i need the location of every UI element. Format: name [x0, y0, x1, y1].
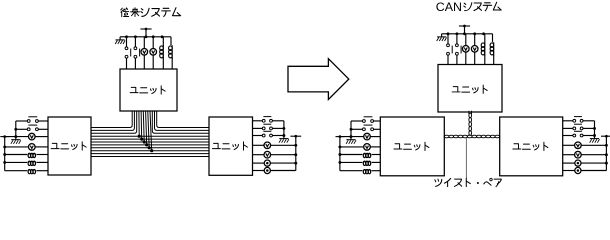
lamp/meter M3 (CAN right unit): [563, 160, 607, 166]
unit box (conventional left ECU): [48, 117, 91, 175]
wire: power feed (CAN left unit): [338, 137, 341, 171]
title: CANシステム (CAN system): [436, 0, 502, 14]
label ユニット (CAN right unit): [513, 142, 548, 150]
label ユニット (CAN left unit): [394, 142, 429, 150]
lamp/meter M2 (CAN top): [471, 34, 478, 65]
label: ツイスト・ペア (twisted pair): [435, 178, 502, 186]
ground (CAN right unit): [590, 136, 600, 143]
wire: power feed (conventional left unit): [3, 137, 6, 171]
big arrow (conventional to CAN): [288, 59, 349, 100]
wire harness: top-unit branch lines bending right (conventional): [152, 111, 209, 133]
switch SW3 (conventional right unit): [253, 131, 284, 137]
switch SW2 (CAN right unit): [563, 124, 595, 130]
ground (conventional right unit): [279, 136, 289, 143]
lamp/meter M1 (conventional left unit): [5, 133, 48, 140]
lamp/meter M2 (conventional left unit): [5, 144, 48, 151]
lamp/meter M2 (CAN left unit): [340, 144, 380, 151]
wire harness: top-unit branch lines bending left (conventional): [91, 111, 137, 133]
power supply symbol (conventional right unit): [290, 135, 301, 145]
svg-text:CAN: CAN: [436, 0, 462, 14]
lamp/meter M2 (conventional right unit): [253, 151, 296, 158]
lamp/meter M1 (CAN right unit): [563, 142, 607, 149]
coil (solenoid) L1 (CAN top): [481, 34, 485, 65]
switch SW1 (conventional top): [125, 37, 131, 69]
label ユニット (conventional left unit): [51, 142, 86, 150]
coil (solenoid) L1 (conventional left unit): [5, 153, 48, 157]
coil (solenoid) L3 (CAN left unit): [340, 169, 380, 173]
power supply symbol (CAN left unit): [336, 135, 345, 138]
unit box (conventional top ECU): [120, 69, 177, 111]
lamp/meter M4 (conventional right unit): [253, 167, 296, 173]
wire: power bus (CAN top): [447, 32, 493, 42]
switch SW2 (conventional left unit): [16, 125, 48, 131]
switch SW2 (conventional right unit): [253, 124, 284, 130]
power supply symbol (CAN top): [459, 25, 470, 34]
ground (CAN left unit): [346, 137, 356, 144]
wire harness: top-unit tap lines with junctions (conventional): [138, 111, 154, 152]
lamp/meter M1 (CAN left unit): [340, 133, 380, 140]
wire harness: through lines (conventional, lines 4-11): [91, 136, 209, 156]
label ユニット (conventional top unit): [130, 86, 165, 94]
switch SW2 (CAN top): [456, 34, 462, 65]
lamp/meter M3 (conventional right unit): [253, 160, 296, 166]
twisted-pair bus: horizontal run between CAN left and right units: [444, 135, 499, 138]
wire: power feed (conventional right unit): [294, 144, 297, 171]
switch SW2 (conventional top): [134, 37, 140, 69]
coil (solenoid) L2 (conventional top): [169, 45, 173, 69]
coil (solenoid) L1 (CAN left unit): [340, 153, 380, 157]
coil (solenoid) L2 (CAN left unit): [340, 161, 380, 165]
power supply symbol (conventional left unit): [0, 135, 9, 138]
switch SW1 (CAN right unit): [563, 117, 595, 123]
ground (CAN top): [437, 34, 448, 41]
coil (solenoid) L1 (conventional top): [160, 37, 164, 69]
switch SW3 (CAN right unit): [563, 131, 595, 137]
lamp/meter M2 (CAN right unit): [563, 151, 607, 158]
leader line to ツイスト・ペア label: [465, 138, 467, 179]
unit box (conventional right ECU): [209, 117, 253, 175]
unit box (CAN right ECU): [500, 117, 563, 176]
wire: switch bus (conventional right unit): [282, 121, 285, 137]
coil (solenoid) L2 (conventional left unit): [5, 161, 48, 165]
lamp/meter M1 (conventional right unit): [253, 142, 296, 149]
lamp/meter M1 (CAN top): [463, 34, 470, 65]
unit box (CAN left ECU): [380, 117, 444, 176]
wire: switch bus (CAN left unit): [350, 121, 353, 138]
power supply symbol (conventional top): [140, 28, 151, 37]
switch SW1 (CAN left unit): [351, 117, 380, 123]
lamp/meter M1 (conventional top): [141, 37, 148, 69]
switch SW2 (CAN left unit): [351, 125, 380, 131]
label ユニット (conventional right unit): [212, 142, 247, 150]
label ユニット (CAN top unit): [452, 85, 487, 93]
title: 従来システム (conventional system): [121, 8, 181, 17]
lamp/meter M2 (conventional top): [150, 37, 157, 69]
switch SW1 (conventional right unit): [253, 117, 284, 123]
power supply symbol (CAN right unit): [601, 135, 610, 145]
coil (solenoid) L2 (CAN top): [490, 42, 494, 64]
wire: switch bus (conventional left unit): [14, 121, 17, 138]
twisted-pair bus: vertical drop from CAN top unit: [469, 111, 472, 135]
coil (solenoid) L3 (conventional left unit): [5, 169, 48, 173]
wire: power feed (CAN right unit): [605, 144, 608, 171]
switch SW1 (CAN top): [447, 34, 453, 65]
wire: switch bus (CAN right unit): [593, 121, 596, 137]
wire: power bus (conventional top): [125, 35, 171, 45]
ground (conventional left unit): [11, 137, 21, 144]
lamp/meter M4 (CAN right unit): [563, 167, 607, 173]
ground (conventional top): [115, 37, 126, 44]
unit box (CAN top ECU): [438, 65, 502, 113]
switch SW1 (conventional left unit): [16, 117, 48, 123]
